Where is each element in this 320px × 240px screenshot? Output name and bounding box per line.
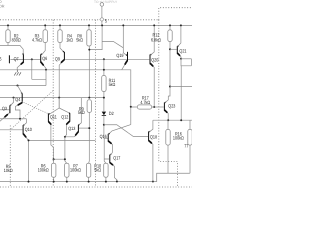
emitter bias wire xyxy=(0,70,131,125)
ground xyxy=(14,70,21,76)
junction mirror feed xyxy=(58,97,60,99)
wire tail current node xyxy=(0,118,26,120)
wire Q21 emitter loop xyxy=(181,59,191,66)
svg-text:100kΩ: 100kΩ xyxy=(173,136,184,141)
svg-text:77: 77 xyxy=(184,143,188,148)
resistor R6 xyxy=(52,163,56,177)
positive supply rail xyxy=(0,24,192,26)
base bus wire Q9 Q19 Q20 xyxy=(65,58,149,60)
wire terminal to diamond xyxy=(101,6,103,17)
junction Q13 base xyxy=(88,127,90,129)
resistor R9b xyxy=(86,163,90,177)
transistor Q6 xyxy=(40,54,46,70)
svg-text:6.8kΩ: 6.8kΩ xyxy=(151,38,161,43)
junction output xyxy=(180,119,182,121)
svg-text:TO +V SUPPLY: TO +V SUPPLY xyxy=(94,0,118,4)
rail junction dots xyxy=(7,24,182,26)
svg-text:Q11: Q11 xyxy=(50,114,57,119)
rail step to output side xyxy=(117,173,190,181)
junction Q4 collector xyxy=(17,85,19,87)
svg-text:4.7kΩ: 4.7kΩ xyxy=(32,38,42,43)
junction Q4 emitter xyxy=(19,118,21,120)
transistor Q10 xyxy=(23,119,29,182)
junction bias out xyxy=(169,86,171,88)
transistor Q13 xyxy=(65,98,81,137)
svg-text:D: D xyxy=(0,0,2,4)
junction Q3 collector tie xyxy=(13,97,15,99)
junction R11 top xyxy=(103,69,105,71)
svg-text:1kΩ: 1kΩ xyxy=(66,38,73,43)
terminal 5 circle xyxy=(100,3,104,7)
wire crossover to Q18 base xyxy=(104,125,148,137)
cross couple wire A xyxy=(22,102,48,114)
wire Q4 collector feed xyxy=(0,70,46,86)
svg-text:Q19: Q19 xyxy=(116,53,123,58)
resistor R7 xyxy=(65,163,69,177)
svg-text:Q21: Q21 xyxy=(179,48,186,53)
junction base bus R11 xyxy=(103,58,105,60)
transistor Q12 xyxy=(65,113,70,137)
resistor R2 xyxy=(6,25,10,42)
svg-text:Q10: Q10 xyxy=(25,127,32,132)
corner note text cut off xyxy=(0,0,5,8)
wire Q4 base bus xyxy=(0,97,104,99)
resistor R8 xyxy=(87,25,91,46)
wire R6 bottom xyxy=(53,177,55,181)
svg-text:5kΩ: 5kΩ xyxy=(94,168,101,173)
junction R17 left xyxy=(130,106,132,108)
junction Q6 emitter xyxy=(45,69,47,71)
wire Q21 emitter right xyxy=(181,58,191,60)
svg-text:Q18: Q18 xyxy=(150,135,157,140)
svg-text:Q7: Q7 xyxy=(14,56,19,61)
wire Q17 base vertical xyxy=(104,138,109,163)
wire R7 bottom xyxy=(66,177,68,181)
wire diamond to rail xyxy=(101,22,103,26)
junction Q21 emitter xyxy=(180,58,182,60)
transistor Q9 xyxy=(59,51,65,108)
cross couple wire B xyxy=(10,91,53,130)
svg-text:830Ω: 830Ω xyxy=(12,38,21,43)
wire R6 top link xyxy=(54,158,65,160)
transistor Q3 xyxy=(0,98,14,122)
junction base tie xyxy=(31,58,33,60)
junction link xyxy=(64,158,66,160)
wire Q13 base to R9 xyxy=(79,127,89,129)
wire R9 lead down xyxy=(88,112,91,163)
svg-text:10kΩ: 10kΩ xyxy=(4,168,13,173)
junction Q21 base xyxy=(169,48,171,50)
transistor Q17 xyxy=(109,152,117,181)
svg-text:Q3: Q3 xyxy=(2,106,7,111)
wire mirror tent xyxy=(49,98,70,115)
wire R3 to Q6 collector xyxy=(42,43,45,55)
bottom rail dots xyxy=(28,181,154,183)
wire D2 down xyxy=(104,116,108,139)
svg-text:5: 5 xyxy=(105,19,107,24)
wire Q13 emitter down xyxy=(65,137,67,163)
transistor Q16 xyxy=(108,133,113,152)
resistor R12 xyxy=(168,25,172,41)
svg-text:100kΩ: 100kΩ xyxy=(38,168,49,173)
resistor R11 xyxy=(102,76,106,92)
transistor Q21 xyxy=(177,25,181,58)
junction Q10 emitter wire xyxy=(28,139,30,141)
svg-text:4.7kΩ: 4.7kΩ xyxy=(140,100,150,105)
wire Q21 base xyxy=(170,48,177,50)
junction D2 bottom xyxy=(103,124,105,126)
transistor Q11 xyxy=(48,113,54,159)
transistor Q23 xyxy=(164,96,168,120)
wire Q23 base xyxy=(154,106,164,108)
svg-text:100kΩ: 100kΩ xyxy=(70,168,81,173)
transistor Q5 stub cut at edge xyxy=(9,55,10,63)
junction R11 D2 xyxy=(103,97,105,99)
junction R8 mid tap xyxy=(88,49,90,51)
resistor R4 xyxy=(58,25,62,42)
wire bias out right xyxy=(170,86,192,88)
svg-text:D2: D2 xyxy=(109,111,114,116)
node diamond 5 xyxy=(100,17,104,21)
transistor Q4 xyxy=(15,86,22,119)
transistor Q7 xyxy=(17,53,24,69)
wire Q10 base xyxy=(0,129,23,131)
svg-text:Q4: Q4 xyxy=(15,97,20,102)
junction Q13 emitter xyxy=(64,136,66,138)
svg-text:Q20: Q20 xyxy=(151,57,158,62)
bottom rail xyxy=(0,181,117,183)
transistor Q20 xyxy=(150,25,155,107)
svg-text:OR: OR xyxy=(0,4,5,8)
svg-text:5kΩ: 5kΩ xyxy=(109,82,116,87)
svg-text:Q16: Q16 xyxy=(100,134,107,139)
wire R11 bottom xyxy=(103,92,105,112)
transistor Q19 xyxy=(122,25,128,69)
svg-text:5kΩ: 5kΩ xyxy=(78,110,85,115)
wire R8 long lead down xyxy=(88,46,90,98)
resistor R3 xyxy=(43,25,47,42)
junction R6 top xyxy=(53,158,55,160)
junction R16 top xyxy=(167,119,169,121)
transistor Q18 xyxy=(148,120,153,181)
wire R9b bottom xyxy=(88,177,90,181)
output collector wire xyxy=(153,119,192,121)
diode D2 xyxy=(102,112,106,116)
wire Q3 base xyxy=(0,109,9,111)
wire node5 branch xyxy=(89,25,123,49)
wire R4 to Q9 collector xyxy=(60,43,64,52)
svg-text:5kΩ: 5kΩ xyxy=(76,38,83,43)
svg-text:Q9: Q9 xyxy=(55,57,60,62)
wire crossover to Q16 collector xyxy=(109,125,131,134)
junction R8 R9 xyxy=(88,97,90,99)
wire mirror bottom xyxy=(29,139,96,141)
base tie wire Q7 Q6 xyxy=(10,58,40,60)
resistor R16 xyxy=(166,120,170,173)
svg-text:Q17: Q17 xyxy=(113,156,120,161)
svg-text:Q6: Q6 xyxy=(42,56,47,61)
svg-text:Q23: Q23 xyxy=(168,103,175,108)
wire base tie down xyxy=(31,59,33,79)
resistor R9 xyxy=(87,100,91,113)
svg-text:Q13: Q13 xyxy=(68,126,75,131)
wire Q21 to Q18 collector xyxy=(180,66,182,120)
svg-text:Q12: Q12 xyxy=(61,114,68,119)
resistor R17 xyxy=(131,105,155,109)
dashed enclosure border xyxy=(0,8,192,187)
wire R12 down bias xyxy=(168,42,170,97)
resistor Redge cut at edge xyxy=(188,120,192,173)
junction R17 right xyxy=(153,106,155,108)
wire R2 to Q7 collector xyxy=(0,43,23,55)
wire R6 lead xyxy=(53,159,55,163)
wire base bus to R11 xyxy=(103,59,105,75)
resistor R10 xyxy=(104,163,108,177)
wire R10 bottom xyxy=(105,177,107,181)
